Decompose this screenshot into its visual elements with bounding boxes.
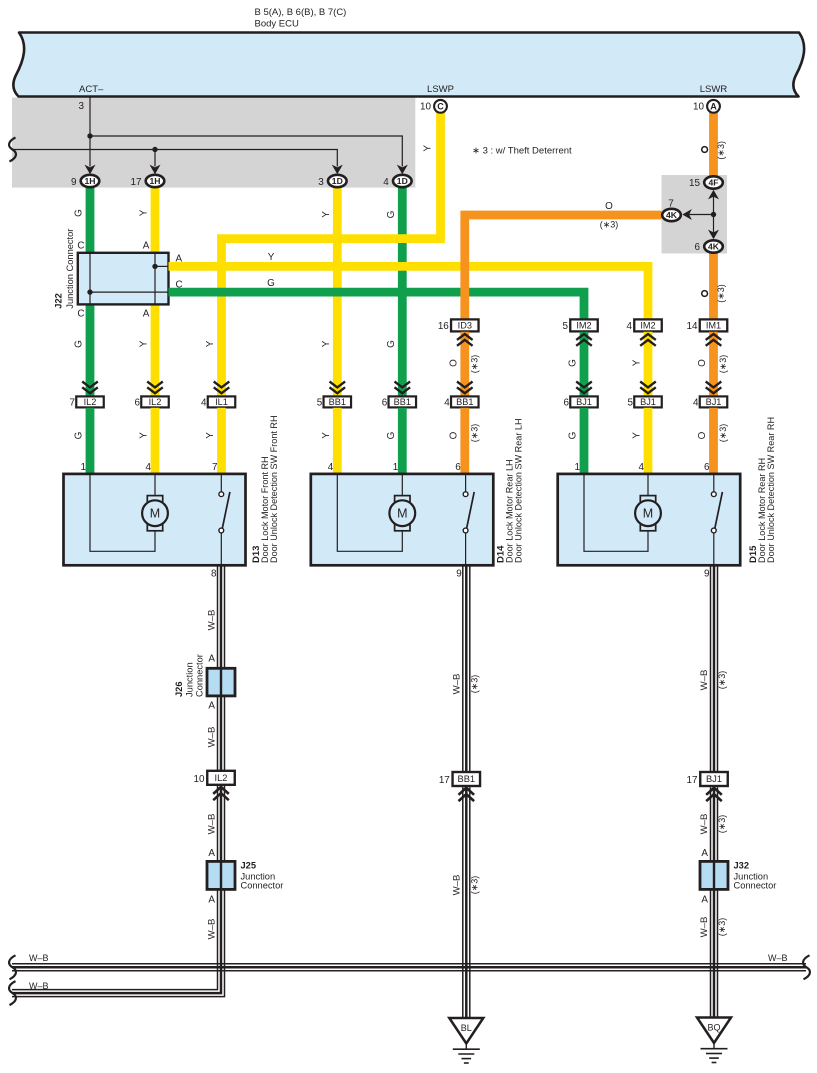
stem to down arrow (713, 215, 715, 233)
svg-text:IL2: IL2 (215, 773, 228, 783)
unlock detection switch (D14) (463, 474, 474, 565)
wire W-B from J32 to ground BQ (710, 889, 712, 1017)
door lock assembly D14 box (311, 474, 494, 565)
svg-text:1H: 1H (150, 176, 161, 186)
svg-text:W–B: W–B (29, 981, 49, 991)
chevrons down into IL1 pin4 (214, 382, 230, 394)
wire G between connector rows (580, 332, 589, 397)
wire Y into door lock assembly (644, 408, 653, 474)
wire W-B from D13 to J26 (217, 565, 219, 668)
chevrons down into BJ1 pin5 (640, 382, 656, 394)
svg-text:W–B: W–B (699, 814, 710, 835)
arrow into 1H pin9 (85, 165, 96, 175)
svg-text:7: 7 (668, 199, 674, 210)
arrow into 1D pin4 (397, 165, 408, 175)
wire G from J22 to IL2 (86, 304, 95, 396)
svg-text:J32: J32 (734, 861, 750, 871)
svg-text:Y: Y (632, 359, 643, 366)
connector C (LSWP) (434, 100, 447, 113)
svg-text:4K: 4K (666, 210, 678, 220)
svg-text:BJ1: BJ1 (640, 397, 656, 407)
svg-text:(∗3): (∗3) (717, 815, 727, 834)
connector A (LSWR) (707, 100, 720, 113)
svg-text:ID3: ID3 (458, 321, 472, 331)
svg-text:6: 6 (135, 398, 141, 409)
svg-text:16: 16 (438, 321, 449, 332)
wire branch down to 1H pin17 (154, 150, 156, 167)
svg-text:BJ1: BJ1 (576, 397, 592, 407)
svg-text:A: A (176, 254, 183, 265)
svg-text:LSWR: LSWR (700, 84, 728, 95)
svg-text:Body ECU: Body ECU (255, 19, 299, 30)
wire O tap from 4K7 to ID3 (465, 215, 662, 322)
svg-text:Junction: Junction (185, 662, 195, 697)
svg-text:LSWP: LSWP (427, 84, 454, 95)
svg-text:Connector: Connector (734, 880, 777, 890)
D14 motor return wire (337, 474, 402, 551)
chevrons down into BB1 pin5 (330, 382, 346, 394)
ground bus W-B horizontal 1 (12, 963, 806, 965)
svg-text:Y: Y (321, 432, 332, 439)
svg-text:4: 4 (201, 398, 207, 409)
svg-text:A: A (701, 895, 708, 906)
shield area left (ECU connector region) (12, 98, 415, 188)
wire Y tap from J22 to IM2 pin4 (169, 266, 649, 321)
option circle upper (702, 147, 708, 153)
svg-text:1: 1 (81, 462, 87, 473)
chevrons up below box (G) (576, 334, 592, 346)
chevrons below BJ1 (706, 788, 722, 801)
stem from junction to up arrow (713, 197, 715, 215)
svg-text:G: G (74, 340, 85, 348)
svg-text:G: G (568, 432, 579, 440)
stem to left arrow (688, 214, 714, 216)
svg-text:G: G (386, 432, 397, 440)
svg-text:6: 6 (564, 398, 570, 409)
svg-text:Y: Y (139, 209, 150, 216)
svg-text:W–B: W–B (451, 875, 462, 896)
wire Y from 1D3 to BB1 (333, 188, 342, 397)
connector ID3 pin16 (451, 319, 479, 331)
svg-text:G: G (386, 211, 397, 219)
chevrons up below box (O) (706, 334, 722, 346)
svg-text:A: A (143, 309, 150, 320)
wire G tap from J22 to IM2 pin5 (169, 292, 585, 321)
svg-text:IL2: IL2 (149, 397, 162, 407)
junction connector J32 box (700, 861, 728, 889)
connector BJ1 pin6 (570, 396, 598, 407)
svg-text:10: 10 (194, 774, 205, 785)
J22 internal pass-through line (Y) (154, 253, 156, 305)
D14 motor feed wire (401, 474, 403, 496)
svg-text:O: O (697, 359, 708, 367)
shield area right (4F/4K region) (662, 175, 728, 254)
svg-text:O: O (448, 431, 459, 439)
svg-text:BB1: BB1 (456, 397, 473, 407)
svg-text:14: 14 (687, 321, 698, 332)
connector BB1 pin5 (324, 396, 352, 407)
svg-text:4: 4 (146, 462, 152, 473)
motor M (D14) (389, 496, 415, 531)
svg-text:6: 6 (695, 242, 701, 253)
svg-text:Y: Y (139, 340, 150, 347)
continuation squiggle left bus2 (9, 981, 16, 1005)
svg-text:IL2: IL2 (84, 397, 97, 407)
svg-text:W–B: W–B (451, 674, 462, 695)
svg-text:W–B: W–B (29, 953, 49, 963)
wire W-B from BB1 to ground BL (462, 787, 464, 1018)
svg-text:5: 5 (317, 398, 323, 409)
wire W-B from D15 to BJ1 (710, 565, 712, 772)
svg-text:B 5(A), B 6(B), B 7(C): B 5(A), B 6(B), B 7(C) (255, 7, 347, 18)
wire ACT- vertical (89, 96, 91, 167)
svg-text:4: 4 (383, 177, 389, 188)
svg-text:4: 4 (328, 462, 334, 473)
svg-text:BB1: BB1 (329, 397, 346, 407)
svg-text:M: M (643, 507, 653, 521)
wire Y into door lock assembly (151, 408, 160, 474)
svg-text:Y: Y (321, 340, 332, 347)
chevrons down into BB1 pin4 (457, 382, 473, 394)
svg-text:J25: J25 (241, 861, 257, 871)
continuation squiggle right bus1 (803, 955, 810, 979)
svg-text:(∗3): (∗3) (469, 355, 479, 374)
svg-text:(∗3): (∗3) (600, 219, 619, 229)
connector IL2 pin6 (141, 396, 169, 407)
chevrons down into BJ1 pin4 (706, 382, 722, 394)
svg-text:C: C (437, 102, 444, 112)
connector 4K pin7 (662, 209, 681, 221)
svg-text:W–B: W–B (207, 727, 218, 748)
svg-text:6: 6 (704, 462, 710, 473)
chevrons down into BJ1 pin6 (576, 382, 592, 394)
chevrons up below box (O) (457, 334, 473, 346)
svg-text:Door Unlock Detection SW Rear: Door Unlock Detection SW Rear RH (766, 417, 776, 563)
svg-text:Door Unlock Detection SW Front: Door Unlock Detection SW Front RH (269, 415, 279, 563)
connector BB1 pin6 (389, 396, 417, 407)
svg-text:A: A (208, 654, 215, 665)
J26 centre split (220, 668, 222, 696)
svg-text:M: M (397, 507, 407, 521)
svg-text:(∗3): (∗3) (718, 424, 728, 443)
svg-text:4F: 4F (708, 178, 718, 188)
J22 internal pass-through line (G) (89, 253, 91, 305)
wire G into door lock assembly (86, 408, 95, 474)
wire from off-page to 1H pin17 and 1D pin3 (12, 150, 337, 167)
svg-text:C: C (77, 309, 84, 320)
svg-text:IM2: IM2 (576, 321, 591, 331)
connector BJ1 pin5 (634, 396, 662, 407)
svg-text:IL1: IL1 (215, 397, 228, 407)
connector BJ1 pin4 (700, 396, 728, 407)
svg-text:4: 4 (639, 462, 645, 473)
junction connector J26 box (207, 668, 235, 696)
connector IM2 pin4 (634, 319, 662, 331)
svg-text:IM1: IM1 (706, 321, 721, 331)
svg-text:1D: 1D (332, 176, 343, 186)
chevrons down into IL2 pin7 (82, 382, 98, 394)
svg-text:5: 5 (563, 321, 569, 332)
wire W-B corner to off-page left (12, 930, 218, 990)
svg-text:BB1: BB1 (458, 774, 476, 784)
svg-text:(∗3): (∗3) (717, 671, 727, 690)
connector 4F pin15 (704, 176, 723, 188)
svg-text:Y: Y (139, 432, 150, 439)
svg-text:Y: Y (321, 211, 332, 218)
svg-text:O: O (605, 201, 613, 212)
continuation squiggle left (9, 138, 16, 162)
chevrons below BB1 (459, 788, 475, 801)
svg-text:∗ 3 : w/ Theft Deterrent: ∗ 3 : w/ Theft Deterrent (472, 146, 572, 157)
svg-text:Door Unlock Detection SW Rear: Door Unlock Detection SW Rear LH (514, 418, 524, 563)
wire W-B from BJ1 down (710, 787, 712, 861)
svg-text:4: 4 (627, 321, 633, 332)
continuation squiggle left bus1 (9, 955, 16, 979)
svg-text:17: 17 (687, 775, 698, 786)
svg-text:G: G (74, 432, 85, 440)
svg-text:J22: J22 (54, 293, 64, 309)
J22 tap dot Y (152, 264, 157, 269)
svg-text:Junction Connector: Junction Connector (65, 229, 75, 309)
svg-text:6: 6 (382, 398, 388, 409)
ground BQ (697, 1018, 731, 1063)
connector IM2 pin5 (570, 319, 598, 331)
svg-text:C: C (77, 241, 84, 252)
junction dot 4K (711, 212, 716, 217)
svg-text:(∗3): (∗3) (718, 355, 728, 374)
svg-text:(∗3): (∗3) (717, 918, 727, 937)
svg-text:W–B: W–B (207, 814, 218, 835)
svg-text:1H: 1H (85, 176, 96, 186)
junction dot 1H17 branch (152, 147, 157, 152)
svg-text:Connector: Connector (195, 654, 205, 697)
svg-text:(∗3): (∗3) (716, 141, 726, 160)
wire G from 1H9 to J22 (86, 188, 95, 254)
option circle lower (702, 291, 708, 297)
connector BJ1 pin17 (700, 772, 728, 786)
motor M (D13) (142, 496, 168, 531)
unlock detection switch (D15) (711, 474, 722, 565)
svg-text:15: 15 (689, 178, 700, 189)
J25 centre split (220, 861, 222, 889)
wire W-B from J25 down (217, 889, 219, 930)
svg-text:8: 8 (211, 569, 217, 580)
svg-text:9: 9 (456, 569, 462, 580)
svg-text:C: C (176, 280, 183, 291)
J22 internal tap line to Y output (155, 265, 169, 267)
wire O from 4K6 to IM1 (709, 253, 718, 322)
svg-text:3: 3 (318, 177, 324, 188)
wire Y between connector rows (644, 332, 653, 397)
wire Y from J22 to IL2 (151, 304, 160, 396)
connector IM1 pin14 (700, 319, 728, 331)
svg-text:O: O (448, 359, 459, 367)
wire O between connector rows (460, 332, 469, 397)
wire W-B from D14 to BB1 (462, 565, 464, 772)
svg-text:O: O (697, 431, 708, 439)
svg-text:A: A (208, 895, 215, 906)
svg-text:10: 10 (420, 101, 431, 112)
wire Y from LSWP C down-left to IL1 (222, 112, 441, 397)
wire W-B from IL2 to J25 (217, 786, 219, 861)
junction dot on ACT- wire (87, 133, 92, 138)
connector BB1 pin17 (453, 772, 481, 786)
svg-text:M: M (150, 507, 160, 521)
svg-text:W–B: W–B (699, 670, 710, 691)
svg-text:(∗3): (∗3) (469, 675, 479, 694)
connector IL1 pin4 (208, 396, 236, 407)
junction connector J22 box (78, 253, 169, 305)
svg-text:W–B: W–B (699, 917, 710, 938)
J22 internal tap line to G output (90, 291, 169, 293)
svg-text:BB1: BB1 (394, 397, 411, 407)
junction connector J25 box (207, 861, 235, 889)
connector 1H pin17 (146, 175, 165, 187)
svg-text:7: 7 (70, 398, 76, 409)
D13 motor return wire (90, 474, 155, 551)
wire O into door lock assembly (709, 408, 718, 474)
svg-text:4K: 4K (708, 242, 720, 252)
svg-text:W–B: W–B (207, 919, 218, 940)
chevrons down into IL2 pin6 (147, 382, 163, 394)
svg-text:BJ1: BJ1 (706, 397, 722, 407)
svg-text:9: 9 (704, 569, 710, 580)
svg-text:Y: Y (268, 252, 275, 263)
svg-text:A: A (208, 701, 215, 712)
svg-text:17: 17 (439, 775, 450, 786)
svg-text:3: 3 (79, 101, 85, 112)
svg-text:Y: Y (632, 432, 643, 439)
connector 1D pin3 (328, 175, 347, 187)
svg-text:G: G (74, 209, 85, 217)
svg-text:BL: BL (461, 1023, 472, 1033)
Body ECU title (255, 7, 347, 30)
arrow into 1D pin3 (332, 165, 343, 175)
svg-text:4: 4 (693, 398, 699, 409)
svg-text:BQ: BQ (707, 1023, 720, 1033)
wire G into door lock assembly (398, 408, 407, 474)
svg-text:1D: 1D (397, 176, 408, 186)
arrow left into 4K7 (682, 209, 692, 220)
wire Y into door lock assembly (333, 408, 342, 474)
svg-text:W–B: W–B (768, 953, 788, 963)
door lock assembly D13 box (64, 474, 246, 565)
svg-text:G: G (386, 340, 397, 348)
svg-text:4: 4 (444, 398, 450, 409)
svg-text:Y: Y (423, 145, 434, 152)
D13 motor feed wire (154, 474, 156, 496)
wire G from 1D4 to BB1 (398, 188, 407, 397)
svg-text:1: 1 (393, 462, 399, 473)
wire O into door lock assembly (460, 408, 469, 474)
connector 1H pin9 (81, 175, 100, 187)
svg-text:Y: Y (205, 432, 216, 439)
svg-text:1: 1 (575, 462, 581, 473)
svg-text:A: A (710, 102, 717, 112)
arrow up into 4F (708, 190, 719, 200)
J22 tap dot G (87, 289, 92, 294)
svg-text:J26: J26 (174, 681, 184, 697)
svg-text:A: A (701, 848, 708, 859)
svg-text:ACT–: ACT– (79, 84, 104, 95)
wire O from LSWR to 4F (709, 112, 718, 176)
svg-text:Y: Y (205, 340, 216, 347)
D15 motor return wire (584, 474, 648, 551)
arrow down into 4K6 (708, 230, 719, 240)
svg-text:(∗3): (∗3) (469, 876, 479, 895)
svg-text:9: 9 (71, 177, 77, 188)
connector IL2 pin7 (76, 396, 104, 407)
chevrons below IL2 (213, 787, 229, 800)
svg-text:(∗3): (∗3) (469, 424, 479, 443)
wire W-B from J26 to IL2 (217, 696, 219, 771)
chevrons up below box (Y) (640, 334, 656, 346)
svg-text:5: 5 (628, 398, 634, 409)
wire Y into door lock assembly (217, 408, 226, 474)
door lock assembly D15 box (558, 474, 741, 565)
svg-text:6: 6 (455, 462, 461, 473)
ground BL (449, 1018, 483, 1063)
D15 motor feed wire (647, 474, 649, 496)
wire G into door lock assembly (580, 408, 589, 474)
connector IL2 pin10 (207, 771, 235, 785)
svg-text:10: 10 (693, 101, 704, 112)
chevrons down into BB1 pin6 (395, 382, 411, 394)
unlock detection switch (D13) (219, 474, 230, 565)
J32 centre split (713, 861, 715, 889)
wire O between connector rows (709, 332, 718, 397)
svg-text:(∗3): (∗3) (716, 284, 726, 303)
svg-text:A: A (143, 241, 150, 252)
wire branch to connector 1D pin4 (90, 136, 402, 167)
svg-text:BJ1: BJ1 (706, 774, 722, 784)
connector 4K pin6 (704, 240, 723, 252)
wire Y from 1H17 to J22 (151, 188, 160, 254)
motor M (D15) (635, 496, 661, 531)
arrow into 1H pin17 (150, 165, 161, 175)
svg-text:W–B: W–B (207, 610, 218, 631)
Body ECU block B (13, 33, 804, 97)
svg-text:A: A (208, 848, 215, 859)
svg-text:7: 7 (212, 462, 218, 473)
connector BB1 pin4 (451, 396, 479, 407)
connector 1D pin4 (393, 175, 412, 187)
svg-text:G: G (568, 359, 579, 367)
svg-text:Connector: Connector (241, 880, 284, 890)
svg-text:G: G (267, 278, 275, 289)
svg-text:17: 17 (131, 177, 142, 188)
svg-text:IM2: IM2 (640, 321, 655, 331)
